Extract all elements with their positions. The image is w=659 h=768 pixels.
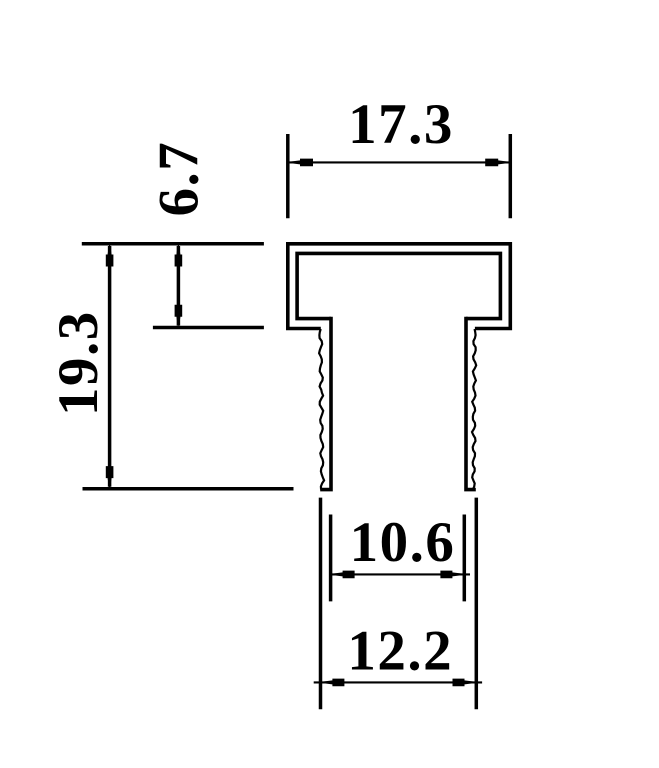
svg-text:6.7: 6.7	[147, 141, 210, 217]
svg-text:10.6: 10.6	[350, 511, 456, 574]
svg-text:17.3: 17.3	[348, 93, 454, 156]
svg-text:19.3: 19.3	[47, 310, 110, 416]
svg-text:12.2: 12.2	[347, 619, 453, 682]
